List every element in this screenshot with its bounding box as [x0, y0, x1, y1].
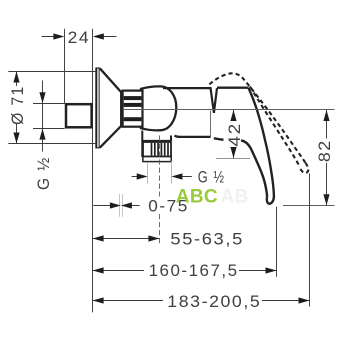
svg-text:183-200,5: 183-200,5: [167, 292, 261, 311]
svg-text:G ½: G ½: [34, 156, 53, 190]
svg-text:G ½: G ½: [198, 168, 226, 187]
svg-text:AB: AB: [221, 187, 249, 208]
svg-text:82: 82: [315, 139, 334, 162]
svg-text:Ø 71: Ø 71: [8, 85, 27, 125]
svg-text:ABC: ABC: [176, 187, 218, 208]
svg-text:42: 42: [225, 122, 244, 147]
svg-text:24: 24: [68, 28, 91, 47]
svg-text:160-167,5: 160-167,5: [149, 261, 239, 280]
svg-text:55-63,5: 55-63,5: [170, 229, 244, 248]
